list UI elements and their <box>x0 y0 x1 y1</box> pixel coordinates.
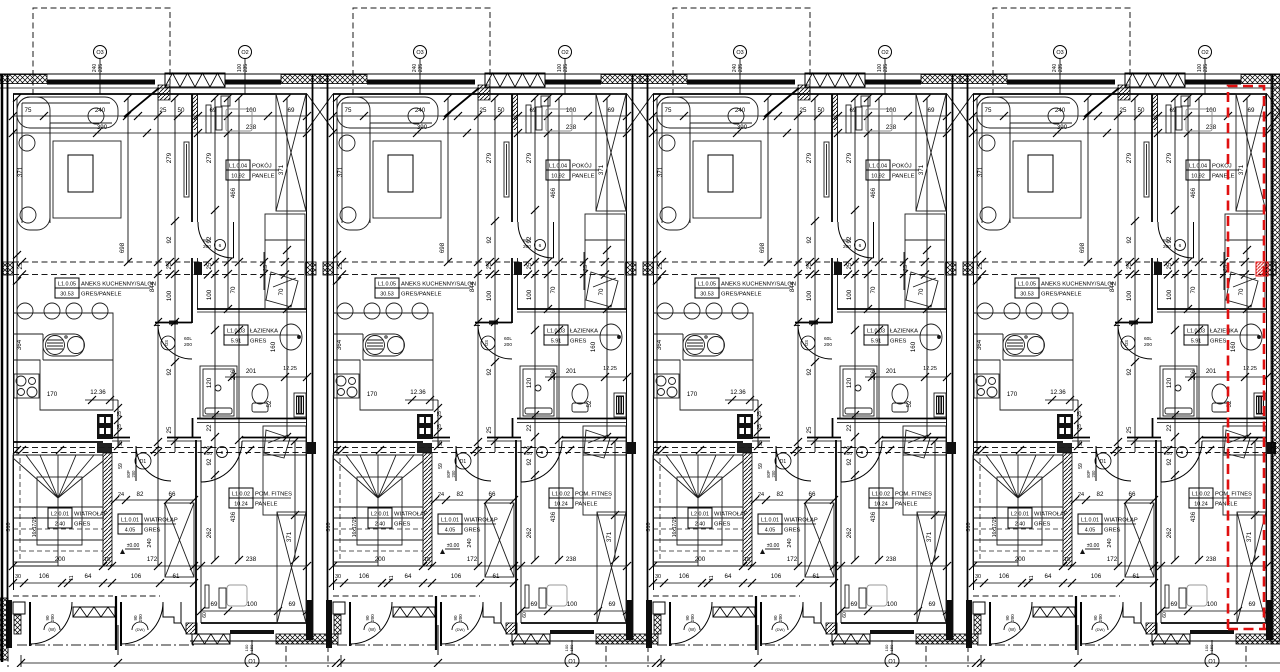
unit 4 <box>960 8 1280 668</box>
building left edge wall <box>1 74 4 662</box>
red investor boundary dashed <box>1228 86 1266 629</box>
red hatch block <box>1256 262 1268 276</box>
unit 2 <box>320 8 660 668</box>
building right edge crosshatch <box>1271 74 1280 644</box>
building left bottom crosshatch <box>0 598 8 660</box>
unit 1 <box>0 8 340 668</box>
unit 3 <box>640 8 980 668</box>
